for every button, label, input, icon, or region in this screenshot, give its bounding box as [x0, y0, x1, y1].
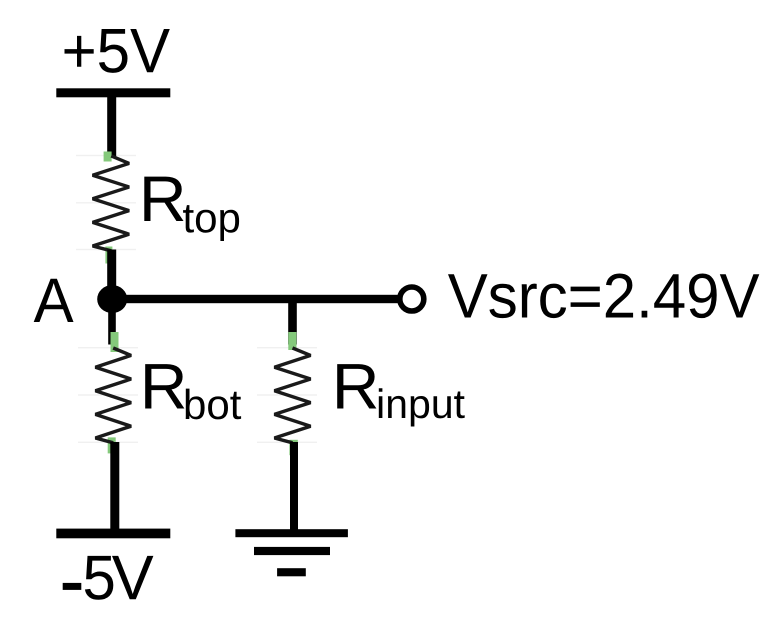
node A junction dot [97, 285, 127, 313]
-5V supply rail [56, 529, 170, 539]
label Vsrc=2.49V [448, 274, 759, 319]
pin marker (green) R_bot bottom [108, 437, 116, 453]
resistor R_bot [95, 348, 131, 443]
wire: R_bot to -5V rail [110, 442, 119, 534]
label R of R_top [144, 177, 183, 221]
terminal Vsrc (open circle) [400, 287, 424, 311]
wire: R_input to ground [290, 442, 298, 532]
resistor R_top [93, 156, 130, 251]
label A (node name) [34, 279, 74, 322]
wire: node A to Vsrc terminal [112, 295, 398, 303]
label +5V [65, 29, 170, 73]
wire: junction to R_input (branch down) [288, 299, 297, 345]
wire: node A down to R_bot [108, 299, 116, 345]
label R of R_bot [145, 364, 184, 408]
faint grid lines at R_input symbol rows [257, 347, 317, 443]
ground bar 2 [254, 547, 330, 555]
pin marker (green) R_top top [104, 152, 112, 162]
resistor R_input [274, 348, 310, 443]
pin marker (green) R_top bottom [105, 247, 112, 264]
pin marker (green) R_input bottom [289, 440, 297, 455]
label -5V: letter V [112, 556, 153, 599]
faint grid lines at R_top symbol rows [76, 155, 136, 250]
label -5V: minus sign [63, 583, 82, 590]
wire: R_top to node A [107, 250, 116, 301]
label R of R_input [337, 364, 376, 408]
+5V supply rail [56, 88, 170, 97]
ground bar 3 [277, 568, 306, 576]
faint grid lines at R_bot symbol rows [78, 347, 138, 443]
pin marker (green) R_bot top [111, 332, 119, 352]
label sub input [379, 388, 465, 426]
ground bar 1 [235, 529, 348, 537]
label sub top [183, 205, 239, 241]
label -5V: digit 5 [85, 556, 113, 600]
label sub bot [186, 389, 241, 420]
wire: +5V rail to R_top [107, 92, 116, 157]
pin marker (green) R_input top [288, 332, 296, 350]
